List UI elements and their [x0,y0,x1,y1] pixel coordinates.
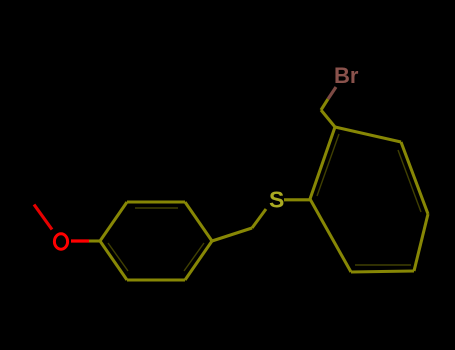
right benzene ring edge C4'-C5' (right-lower) [414,214,428,271]
bond CH3-O (methyl to ether oxygen, red) [34,205,52,230]
left benzene ring edge C2-C3 (top) [127,200,185,203]
left benzene ring edge C6-C1 (lower-left) [100,241,127,280]
right ring double bond inner line (right-upper edge) [398,150,421,212]
right ring double bond inner line (bottom edge) [355,264,411,266]
bond C2'-CH2' (bromomethyl methylene) [321,110,335,127]
bond O-C1 (carbon half, olive) [89,239,101,242]
right benzene ring edge C1'-C2' (upper-left) [310,127,335,199]
right benzene ring edge C5'-C6' (bottom) [351,271,414,272]
left benzene ring edge C1-C2 (upper-left) [100,202,127,241]
left benzene ring edge C5-C6 (bottom) [127,278,185,281]
right benzene ring edge C6'-C1' (lower-left) [310,199,351,272]
svg-text:Br: Br [334,63,359,88]
bond CH2-S [252,209,266,228]
right benzene ring edge C3'-C4' (right-upper) [401,142,428,214]
left ring double bond inner line (top edge) [135,207,178,209]
svg-text:S: S [269,187,284,213]
right ring double bond inner line (upper-left edge) [317,134,339,196]
left ring double bond inner line (lower-right edge) [184,243,204,271]
right benzene ring edge C2'-C3' (top) [335,127,401,142]
left benzene ring edge C4-C5 (lower-right) [185,241,212,280]
left ring double bond inner line (lower-left edge) [108,243,128,271]
bond CH2'-Br (carbon half, olive) [321,99,328,110]
bond C4-CH2 (benzylic methylene) [212,228,252,241]
bond CH2'-Br (bromine half, dark red) [328,87,336,99]
bond S-C1' (sulfur to right ring) [284,198,311,201]
atom O (ether oxygen label) [54,234,67,249]
bond O-C1 (oxygen to ring carbon, red half) [71,239,89,242]
left benzene ring edge C3-C4 (upper-right) [185,202,212,241]
